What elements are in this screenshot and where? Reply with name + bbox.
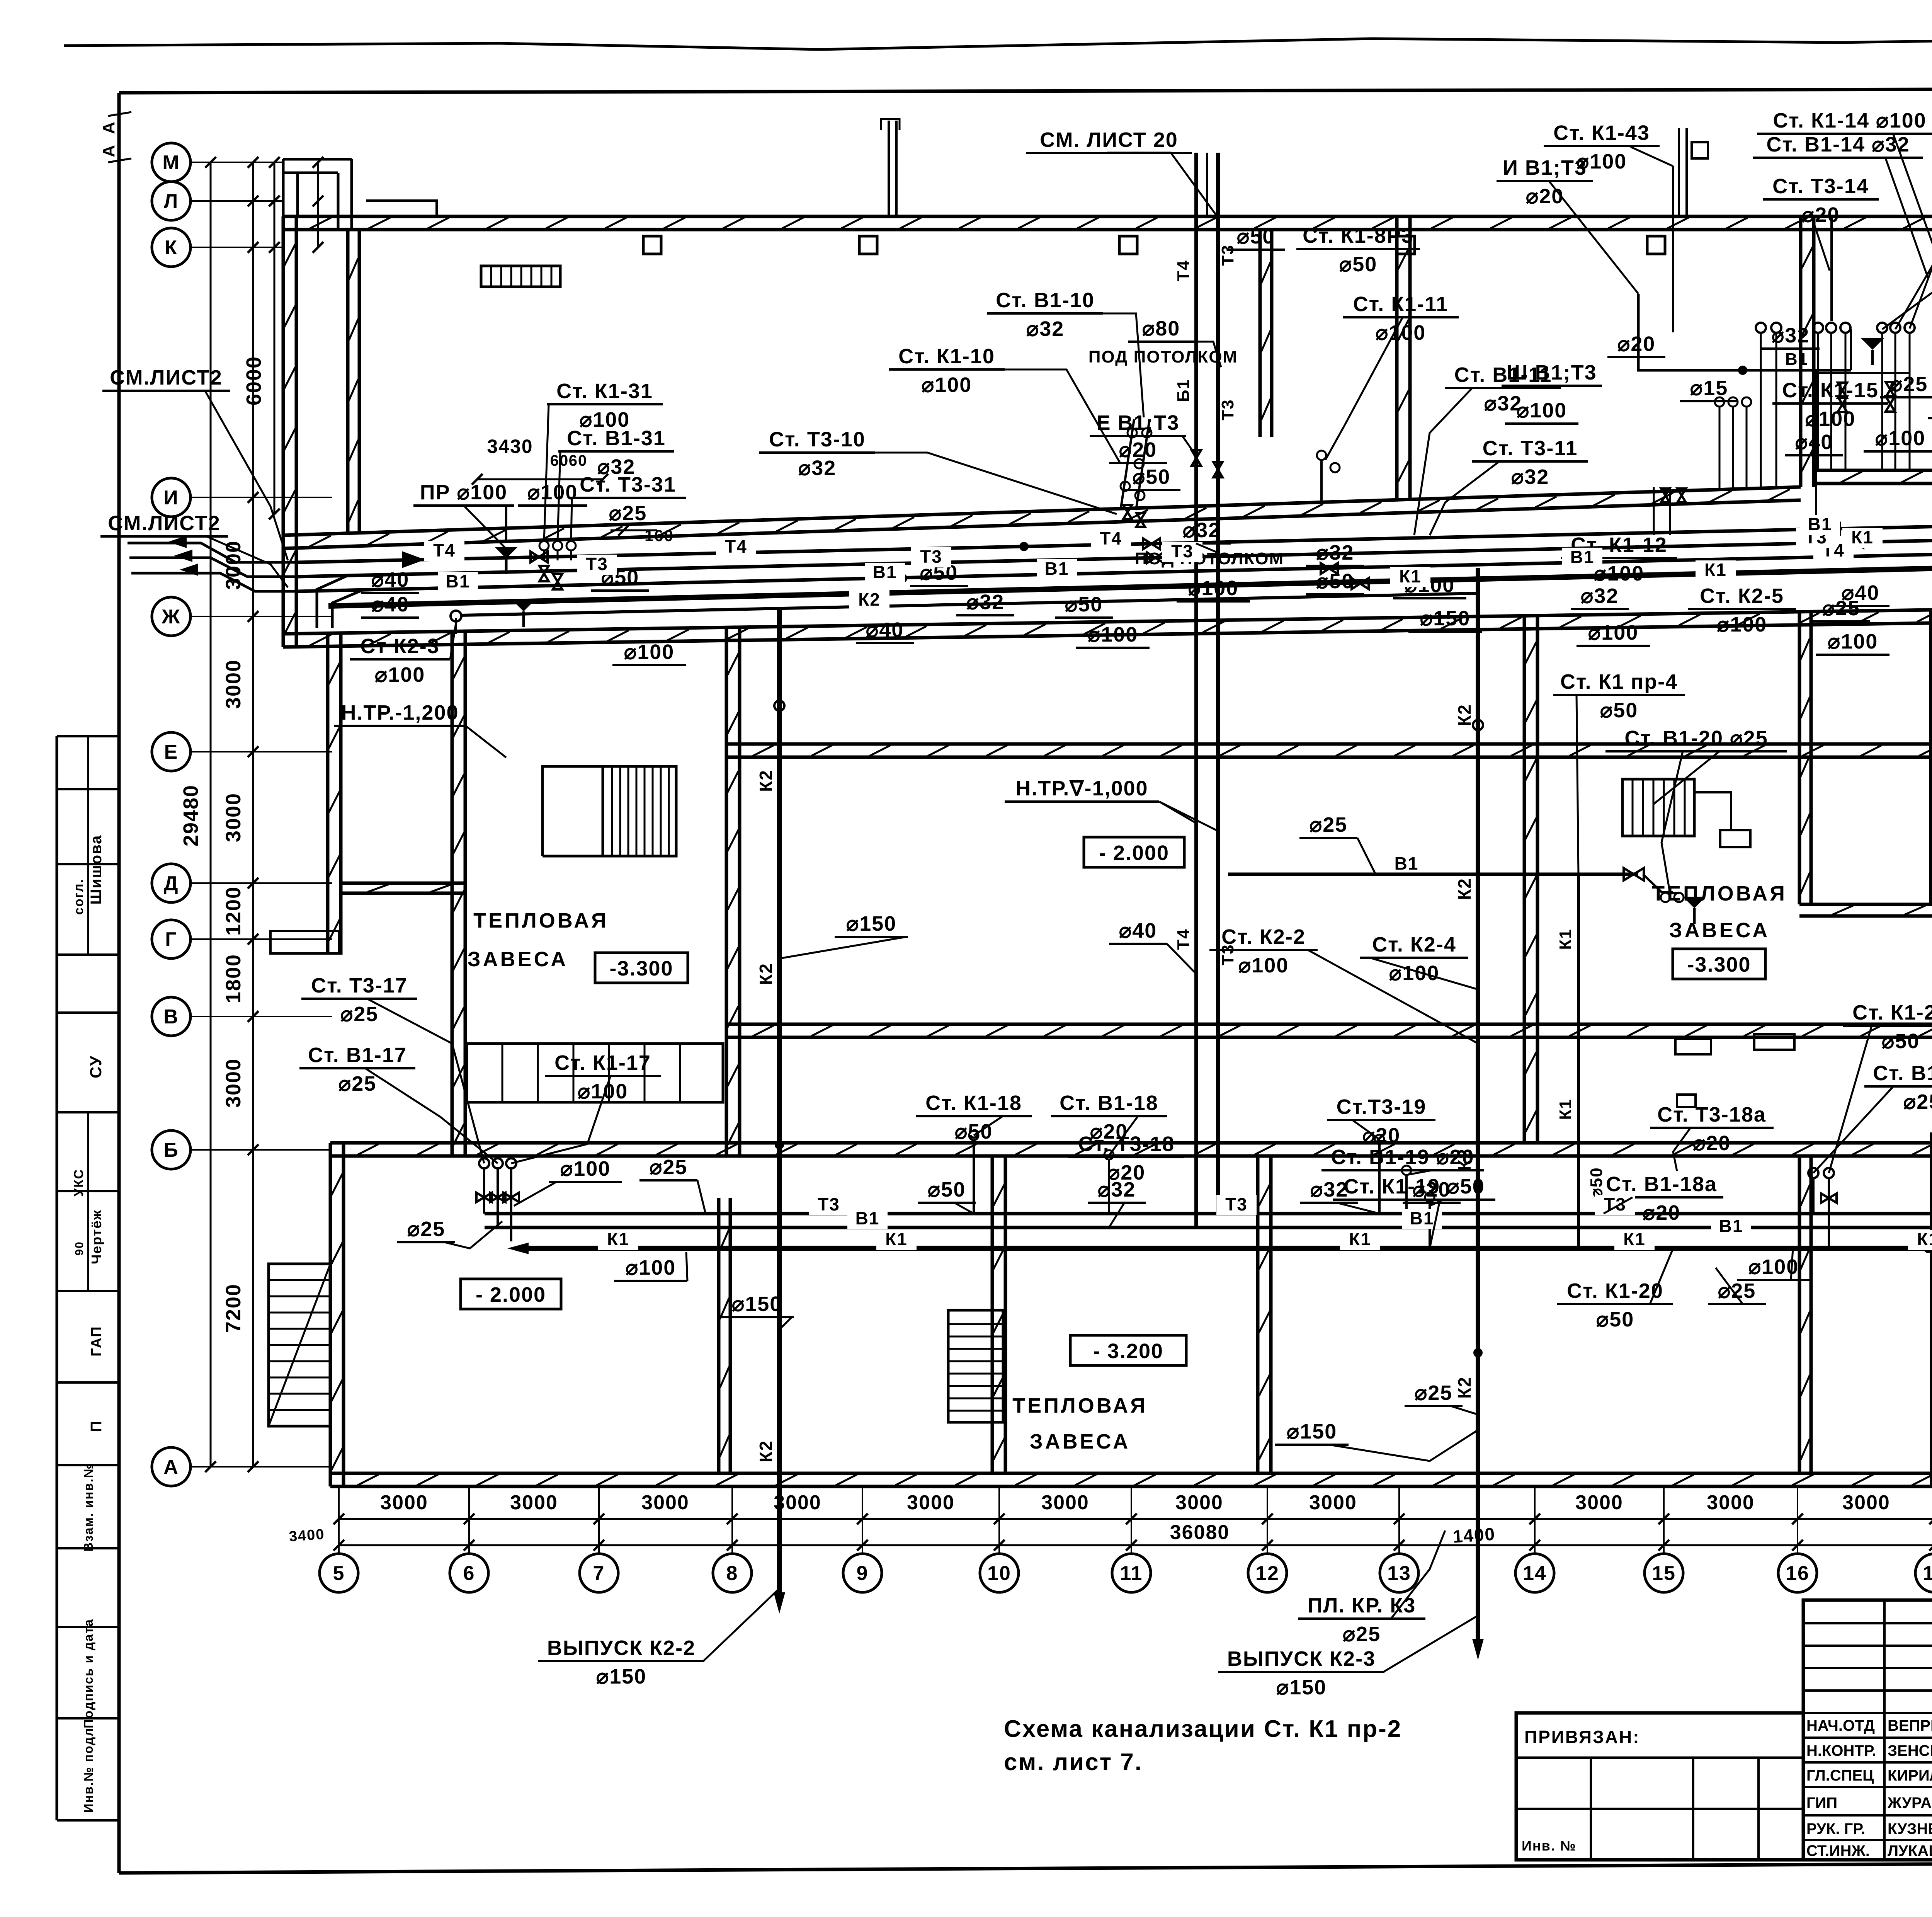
left exterior wall upper <box>282 216 285 647</box>
svg-text:К2: К2 <box>1454 1376 1475 1399</box>
svg-text:⌀50: ⌀50 <box>1237 225 1275 248</box>
svg-text:ТЕПЛОВАЯ: ТЕПЛОВАЯ <box>1652 882 1787 905</box>
signatures box <box>1803 1600 1932 1860</box>
svg-text:⌀50: ⌀50 <box>1133 465 1171 489</box>
axis 10 <box>980 1554 1019 1592</box>
svg-text:Ст. К1-18: Ст. К1-18 <box>925 1091 1022 1115</box>
right inner partition a <box>1798 612 1801 904</box>
svg-text:Ст. Т3-18: Ст. Т3-18 <box>1078 1132 1175 1156</box>
svg-text:Ст. К1-15: Ст. К1-15 <box>1782 379 1879 402</box>
svg-text:3000: 3000 <box>1175 1491 1223 1514</box>
svg-text:Е: Е <box>164 741 179 763</box>
svg-text:В1: В1 <box>1785 350 1808 369</box>
svg-text:⌀20: ⌀20 <box>1362 1124 1401 1147</box>
160 dim <box>611 529 657 531</box>
svg-text:⌀50: ⌀50 <box>1882 1030 1920 1053</box>
svg-text:Ст. К1-11: Ст. К1-11 <box>1353 293 1449 316</box>
corridor1 left exits <box>128 543 298 562</box>
svg-text:⌀40: ⌀40 <box>866 618 904 642</box>
svg-text:11: 11 <box>1120 1562 1143 1585</box>
svg-text:⌀100: ⌀100 <box>1188 577 1239 600</box>
column mark <box>859 236 877 254</box>
K2 horizontal line <box>451 611 461 621</box>
svg-text:В1: В1 <box>1570 547 1595 567</box>
svg-text:6: 6 <box>463 1562 475 1585</box>
left corridor cluster (st.31) <box>539 541 549 550</box>
svg-text:3000: 3000 <box>222 1058 245 1108</box>
svg-text:⌀32: ⌀32 <box>798 456 837 480</box>
svg-text:Схема канализации Ст. К1 п: Схема канализации Ст. К1 пр-2 <box>1004 1716 1402 1742</box>
central right partition <box>1523 616 1526 1143</box>
svg-text:ЗАВЕСА: ЗАВЕСА <box>468 948 568 971</box>
svg-text:⌀32: ⌀32 <box>966 591 1005 614</box>
svg-text:- 3.200: - 3.200 <box>1093 1340 1163 1363</box>
svg-text:1800: 1800 <box>222 954 245 1003</box>
svg-text:⌀100: ⌀100 <box>375 663 425 686</box>
svg-text:⌀20: ⌀20 <box>1643 1201 1681 1224</box>
svg-text:-3.300: -3.300 <box>1687 953 1751 976</box>
svg-text:А: А <box>99 144 118 157</box>
svg-text:НАЧ.ОТД: НАЧ.ОТД <box>1806 1717 1875 1734</box>
svg-text:⌀25: ⌀25 <box>1718 1279 1756 1302</box>
svg-text:К2: К2 <box>1454 878 1475 900</box>
svg-text:3430: 3430 <box>487 436 533 457</box>
svg-text:⌀100: ⌀100 <box>1376 321 1426 344</box>
axis 13 <box>1380 1554 1418 1592</box>
svg-text:- 2.000: - 2.000 <box>476 1283 546 1306</box>
svg-text:В1: В1 <box>855 1208 880 1228</box>
svg-text:12: 12 <box>1255 1562 1279 1585</box>
svg-text:⌀25: ⌀25 <box>609 502 647 525</box>
svg-text:Инв.№ подл: Инв.№ подл <box>81 1728 95 1813</box>
frame top <box>119 88 1932 93</box>
corridor1 bottom wall <box>283 609 1932 634</box>
svg-text:⌀32: ⌀32 <box>1581 584 1619 608</box>
svg-text:ВЫПУСК К2-2: ВЫПУСК К2-2 <box>547 1636 696 1660</box>
svg-text:Ст. Т3-31: Ст. Т3-31 <box>580 473 676 496</box>
vent unit top-left <box>481 266 560 287</box>
axis 8 <box>713 1554 752 1592</box>
stamp column <box>56 736 58 1820</box>
svg-text:⌀100: ⌀100 <box>1875 427 1926 450</box>
label leaders <box>205 390 288 560</box>
central vertical pipes T4/V1 and T3 <box>1194 153 1198 1227</box>
axis Б <box>152 1130 190 1169</box>
K1 riser right <box>1577 874 1580 1248</box>
hall left wall <box>725 627 728 1156</box>
svg-text:⌀100: ⌀100 <box>560 1157 611 1180</box>
level - 2.000 <box>1084 837 1184 867</box>
svg-text:3000: 3000 <box>1575 1491 1623 1514</box>
axis 14 <box>1515 1554 1554 1592</box>
svg-text:Ст К2-3: Ст К2-3 <box>360 635 439 658</box>
svg-text:⌀25: ⌀25 <box>407 1217 446 1241</box>
svg-text:К1: К1 <box>1399 566 1422 586</box>
svg-text:⌀40: ⌀40 <box>1795 431 1833 454</box>
svg-text:⌀32: ⌀32 <box>1772 324 1810 347</box>
section mark <box>888 121 890 216</box>
svg-text:⌀25: ⌀25 <box>1890 373 1928 396</box>
svg-text:⌀40: ⌀40 <box>371 568 410 591</box>
svg-text:3000: 3000 <box>1309 1491 1357 1514</box>
svg-text:⌀20: ⌀20 <box>1617 332 1656 356</box>
svg-text:К2: К2 <box>858 589 881 609</box>
corridor 1 pipe T4 <box>298 526 1932 562</box>
svg-text:Ст. К1-10: Ст. К1-10 <box>898 345 995 368</box>
right room wall <box>1799 903 1932 906</box>
svg-text:⌀50: ⌀50 <box>1596 1308 1634 1331</box>
svg-text:Ст. К2-2: Ст. К2-2 <box>1221 925 1306 948</box>
svg-text:Ст. К1 пр-4: Ст. К1 пр-4 <box>1560 670 1678 693</box>
svg-text:Подпись и дата: Подпись и дата <box>81 1619 95 1728</box>
svg-text:Д: Д <box>163 872 179 895</box>
column mark <box>1397 236 1415 254</box>
corridor 2 pipes <box>485 1212 1932 1216</box>
svg-text:Ст. В1-19 ⌀20: Ст. В1-19 ⌀20 <box>1331 1146 1474 1169</box>
svg-text:В1: В1 <box>1395 853 1419 873</box>
svg-text:60: 60 <box>569 452 588 469</box>
svg-text:3000: 3000 <box>222 793 245 842</box>
axis 6 <box>450 1554 488 1592</box>
svg-text:Т4: Т4 <box>725 536 747 557</box>
K2 riser 2 <box>1476 568 1480 1639</box>
axis Е <box>152 732 190 771</box>
svg-text:3000: 3000 <box>222 659 245 709</box>
svg-text:К1: К1 <box>1349 1229 1371 1249</box>
axis 11 <box>1112 1554 1151 1592</box>
corridor 1 pipe K1 <box>328 567 1932 606</box>
axis К <box>152 228 190 267</box>
svg-text:⌀150: ⌀150 <box>846 912 897 935</box>
svg-text:Чертёж: Чертёж <box>88 1209 104 1264</box>
svg-text:К1: К1 <box>1556 1098 1575 1120</box>
svg-text:см. лист 7.: см. лист 7. <box>1004 1749 1143 1776</box>
svg-text:Ж: Ж <box>162 606 181 628</box>
svg-text:СУ: СУ <box>87 1055 105 1078</box>
svg-text:СМ.ЛИСТ2: СМ.ЛИСТ2 <box>110 366 223 389</box>
svg-text:⌀25: ⌀25 <box>1903 1090 1932 1113</box>
upper-right room bottom wall <box>1814 469 1932 472</box>
stair S1 central hall <box>543 766 603 856</box>
V1 stub top <box>1638 294 1851 370</box>
svg-text:ГАП: ГАП <box>88 1326 105 1356</box>
svg-text:⌀100: ⌀100 <box>527 481 578 504</box>
svg-text:17: 17 <box>1923 1562 1932 1585</box>
svg-text:ТЕПЛОВАЯ: ТЕПЛОВАЯ <box>473 909 609 932</box>
left room right wall <box>451 631 454 1156</box>
dim 6000 line <box>274 162 276 514</box>
svg-text:9: 9 <box>857 1562 869 1585</box>
svg-text:Ст. Т3-14: Ст. Т3-14 <box>1772 175 1869 198</box>
frame left <box>117 93 121 1873</box>
level -3.300 <box>1673 949 1765 979</box>
svg-text:Ст. К1-8Р3: Ст. К1-8Р3 <box>1303 224 1414 247</box>
A-axis bottom wall <box>330 1472 1932 1475</box>
svg-text:⌀50: ⌀50 <box>1316 570 1354 593</box>
axis Г <box>152 920 190 958</box>
svg-text:⌀150: ⌀150 <box>596 1665 647 1688</box>
corridor1 valves <box>531 552 548 562</box>
axis 9 <box>843 1554 882 1592</box>
stair S3 bottom-left outside <box>269 1264 330 1426</box>
B-axis wall <box>330 1141 1932 1145</box>
svg-text:Шишова: Шишова <box>88 835 105 905</box>
svg-text:3000: 3000 <box>641 1491 689 1514</box>
svg-text:Т3: Т3 <box>1171 541 1194 561</box>
svg-text:Т3: Т3 <box>920 546 942 567</box>
svg-text:К2: К2 <box>756 770 776 792</box>
svg-text:РУК. ГР.: РУК. ГР. <box>1806 1820 1865 1837</box>
svg-text:⌀80: ⌀80 <box>1142 317 1180 340</box>
dim chain inner <box>252 162 254 1467</box>
bottom partition 1 <box>991 1156 994 1473</box>
svg-text:И В1;Т3: И В1;Т3 <box>1503 156 1587 179</box>
svg-text:Ст. В1-14 ⌀32: Ст. В1-14 ⌀32 <box>1766 133 1910 156</box>
svg-text:К1: К1 <box>1704 560 1727 580</box>
svg-text:⌀150: ⌀150 <box>732 1292 782 1316</box>
svg-text:Н.ТР.-1,200: Н.ТР.-1,200 <box>341 701 459 724</box>
svg-text:ВЫПУСК К2-3: ВЫПУСК К2-3 <box>1227 1647 1376 1670</box>
st.10 cluster <box>1121 419 1134 510</box>
svg-text:90: 90 <box>73 1241 86 1255</box>
svg-text:⌀50: ⌀50 <box>928 1178 966 1201</box>
svg-text:⌀100: ⌀100 <box>1805 407 1856 431</box>
svg-text:Ст. К2-4: Ст. К2-4 <box>1372 933 1456 956</box>
station risers corridor2 <box>973 1140 975 1214</box>
svg-text:Т3: Т3 <box>1218 244 1237 266</box>
K2 riser 1 <box>777 608 782 1592</box>
svg-text:⌀25: ⌀25 <box>1310 813 1348 836</box>
svg-text:ЗЕНСКОВА: ЗЕНСКОВА <box>1888 1742 1932 1759</box>
svg-text:Н.ТР.∇-1,000: Н.ТР.∇-1,000 <box>1015 777 1148 800</box>
svg-text:⌀100: ⌀100 <box>1577 150 1627 173</box>
svg-text:Ст. Т3-11: Ст. Т3-11 <box>1483 437 1578 460</box>
level - 2.000 <box>461 1279 561 1309</box>
E V1;T3 bowties on central pipes <box>1192 450 1201 466</box>
svg-text:Б: Б <box>163 1139 179 1161</box>
svg-text:Взам. инв.№: Взам. инв.№ <box>81 1463 95 1551</box>
svg-text:К1: К1 <box>1917 1229 1932 1249</box>
svg-text:В1: В1 <box>1808 514 1832 534</box>
svg-text:⌀20: ⌀20 <box>1119 438 1157 461</box>
line to K1-43 <box>1672 166 1674 332</box>
svg-text:Б1: Б1 <box>1174 379 1193 402</box>
right exterior bottom <box>1930 1132 1932 1486</box>
column mark <box>1119 236 1137 254</box>
svg-text:Ст. В1-21: Ст. В1-21 <box>1873 1062 1932 1085</box>
svg-text:Ст.Т3-19: Ст.Т3-19 <box>1337 1095 1427 1119</box>
svg-text:6000: 6000 <box>242 356 265 405</box>
svg-text:⌀20: ⌀20 <box>1693 1132 1731 1155</box>
svg-text:⌀50: ⌀50 <box>1587 1167 1606 1198</box>
svg-text:Н.КОНТР.: Н.КОНТР. <box>1806 1742 1876 1759</box>
small boxes right lower room <box>1675 1039 1711 1054</box>
svg-text:⌀20: ⌀20 <box>1802 203 1840 226</box>
svg-text:Т4: Т4 <box>1174 260 1193 281</box>
svg-text:Ст. К1-43: Ст. К1-43 <box>1553 121 1650 145</box>
small notch left wall <box>270 931 339 953</box>
svg-text:Ст. К1-31: Ст. К1-31 <box>556 380 653 403</box>
svg-text:ТЕПЛОВАЯ: ТЕПЛОВАЯ <box>1012 1394 1148 1417</box>
svg-text:⌀40: ⌀40 <box>371 593 410 616</box>
svg-text:согл.: согл. <box>71 878 86 915</box>
top exterior wall <box>283 215 1932 218</box>
heater unit left room <box>467 1044 723 1102</box>
svg-text:М: М <box>162 152 180 174</box>
svg-text:СМ. ЛИСТ 20: СМ. ЛИСТ 20 <box>1040 128 1178 152</box>
bottom partition right <box>1798 1156 1801 1473</box>
svg-text:⌀150: ⌀150 <box>1420 607 1471 630</box>
svg-text:⌀100: ⌀100 <box>1717 613 1767 636</box>
dim line 36000 <box>339 1544 1932 1546</box>
svg-text:Ст. В1-31: Ст. В1-31 <box>567 427 666 450</box>
svg-text:Т4: Т4 <box>433 540 456 560</box>
svg-text:В1: В1 <box>446 571 470 591</box>
svg-text:⌀100: ⌀100 <box>626 1256 676 1279</box>
svg-text:3000: 3000 <box>1842 1491 1890 1514</box>
frame bottom <box>119 1861 1932 1873</box>
svg-text:Т4: Т4 <box>1174 928 1193 950</box>
svg-text:⌀25: ⌀25 <box>1822 597 1861 620</box>
svg-text:К2: К2 <box>756 1440 776 1462</box>
stair S2 bottom center <box>948 1310 1003 1422</box>
svg-text:⌀25: ⌀25 <box>340 1003 379 1026</box>
svg-text:7: 7 <box>593 1562 605 1585</box>
axis Л <box>152 182 190 220</box>
svg-text:14: 14 <box>1523 1562 1547 1585</box>
svg-text:⌀20: ⌀20 <box>1413 1178 1451 1201</box>
axis 16 <box>1778 1554 1817 1592</box>
svg-text:Ст. Т3-17: Ст. Т3-17 <box>311 974 408 997</box>
svg-text:СТ.ИНЖ.: СТ.ИНЖ. <box>1806 1842 1870 1859</box>
axis 7 <box>580 1554 618 1592</box>
svg-text:П: П <box>88 1420 105 1432</box>
svg-text:ПРИВЯЗАН:: ПРИВЯЗАН: <box>1524 1727 1640 1747</box>
svg-text:⌀100: ⌀100 <box>922 373 972 397</box>
svg-text:А: А <box>99 121 118 134</box>
svg-text:Т3: Т3 <box>1218 399 1237 420</box>
svg-text:⌀40: ⌀40 <box>1119 919 1157 942</box>
svg-text:⌀32: ⌀32 <box>1310 1178 1349 1201</box>
svg-text:В1: В1 <box>873 562 897 582</box>
svg-text:К1: К1 <box>1556 928 1575 950</box>
svg-text:КУЗНЕЦОВА: КУЗНЕЦОВА <box>1888 1820 1932 1837</box>
svg-text:⌀50: ⌀50 <box>955 1120 993 1143</box>
svg-text:К2: К2 <box>1454 704 1475 726</box>
svg-text:КИРИЛЛОВА: КИРИЛЛОВА <box>1888 1767 1932 1784</box>
left wall bottom block <box>329 1143 332 1486</box>
axis Ж <box>152 597 190 636</box>
svg-text:Г: Г <box>165 928 177 951</box>
svg-text:ПОД ПОТОЛКОМ: ПОД ПОТОЛКОМ <box>1135 549 1284 568</box>
svg-text:10: 10 <box>987 1562 1011 1585</box>
axis 15 <box>1645 1554 1683 1592</box>
right inner partition b <box>1929 610 1932 904</box>
svg-text:Ст. В1-18а: Ст. В1-18а <box>1606 1173 1717 1196</box>
svg-text:- 2.000: - 2.000 <box>1099 841 1169 865</box>
svg-text:5: 5 <box>333 1562 345 1585</box>
axis В <box>152 997 190 1036</box>
svg-text:⌀100: ⌀100 <box>1517 399 1567 422</box>
svg-text:Т4: Т4 <box>1100 528 1122 548</box>
svg-text:Ш В1;Т3: Ш В1;Т3 <box>1507 361 1597 384</box>
svg-text:Ст. В1-10: Ст. В1-10 <box>996 289 1095 312</box>
svg-text:ЛУКАШОВА: ЛУКАШОВА <box>1888 1842 1932 1859</box>
svg-text:Ст. В1-17: Ст. В1-17 <box>308 1044 407 1067</box>
axis Д <box>152 864 190 902</box>
st K2-3 connection <box>455 618 457 634</box>
svg-text:Т3: Т3 <box>1225 1194 1248 1214</box>
svg-text:⌀32: ⌀32 <box>1511 465 1549 489</box>
svg-text:К1: К1 <box>1623 1229 1646 1249</box>
V1 mid horizontal <box>1228 873 1638 876</box>
svg-text:⌀150: ⌀150 <box>1276 1676 1327 1699</box>
svg-text:3000: 3000 <box>1707 1491 1755 1514</box>
axis М <box>152 143 190 182</box>
svg-text:8: 8 <box>726 1562 738 1585</box>
bottom partition left <box>717 1198 721 1473</box>
svg-text:⌀32: ⌀32 <box>1026 317 1065 340</box>
svg-text:⌀100: ⌀100 <box>1588 621 1639 644</box>
svg-text:36080: 36080 <box>1170 1521 1230 1544</box>
heater unit right room <box>1622 779 1694 836</box>
svg-text:⌀25: ⌀25 <box>1343 1622 1381 1646</box>
top-center partition <box>1259 231 1262 437</box>
svg-text:160: 160 <box>645 526 674 545</box>
corridor 1 pipe T3 <box>298 540 1932 577</box>
svg-text:⌀50: ⌀50 <box>1065 593 1103 616</box>
svg-text:В1: В1 <box>1719 1216 1743 1236</box>
svg-text:⌀20: ⌀20 <box>1526 185 1564 208</box>
mid wall E-axis <box>726 742 1932 746</box>
top-left partition <box>346 231 350 533</box>
svg-text:3400: 3400 <box>289 1526 325 1545</box>
svg-text:-3.300: -3.300 <box>609 957 673 980</box>
dim line 3000s <box>339 1518 1932 1520</box>
left wall mid <box>326 634 330 955</box>
axis 12 <box>1248 1554 1287 1592</box>
top partition 1 <box>1395 216 1399 500</box>
svg-text:⌀25: ⌀25 <box>338 1072 377 1095</box>
bottom partition 2 <box>1256 1156 1260 1473</box>
level -3.300 <box>595 953 688 983</box>
misc cluster near x4300 y1280 <box>1661 489 1670 502</box>
svg-text:Ст. К1-21: Ст. К1-21 <box>1852 1001 1932 1024</box>
svg-text:29480: 29480 <box>179 785 202 846</box>
svg-text:⌀100: ⌀100 <box>624 640 675 664</box>
svg-text:15: 15 <box>1652 1562 1676 1585</box>
svg-text:ЗАВЕСА: ЗАВЕСА <box>1669 919 1770 942</box>
svg-text:⌀50: ⌀50 <box>1600 699 1638 722</box>
svg-text:ГИП: ГИП <box>1806 1794 1837 1811</box>
svg-text:К: К <box>165 237 178 259</box>
privyazan box <box>1516 1713 1803 1860</box>
svg-text:3000: 3000 <box>510 1491 558 1514</box>
svg-text:⌀32: ⌀32 <box>1183 519 1221 542</box>
svg-text:ГЛ.СПЕЦ: ГЛ.СПЕЦ <box>1806 1767 1874 1784</box>
svg-text:Инв. №: Инв. № <box>1522 1838 1577 1854</box>
corridor 1 pipe V1 <box>298 553 1932 591</box>
svg-text:3000: 3000 <box>1041 1491 1089 1514</box>
mid wall V-axis <box>726 1023 1932 1026</box>
leaders from top-right labels <box>1910 123 1932 329</box>
svg-text:Ст. Т3-18а: Ст. Т3-18а <box>1657 1103 1766 1126</box>
svg-text:УКС: УКС <box>71 1169 86 1197</box>
svg-text:СМ.ЛИСТ2: СМ.ЛИСТ2 <box>108 512 221 535</box>
svg-text:⌀100: ⌀100 <box>1238 954 1289 977</box>
svg-text:1400: 1400 <box>1452 1524 1496 1547</box>
svg-text:7200: 7200 <box>222 1284 245 1333</box>
